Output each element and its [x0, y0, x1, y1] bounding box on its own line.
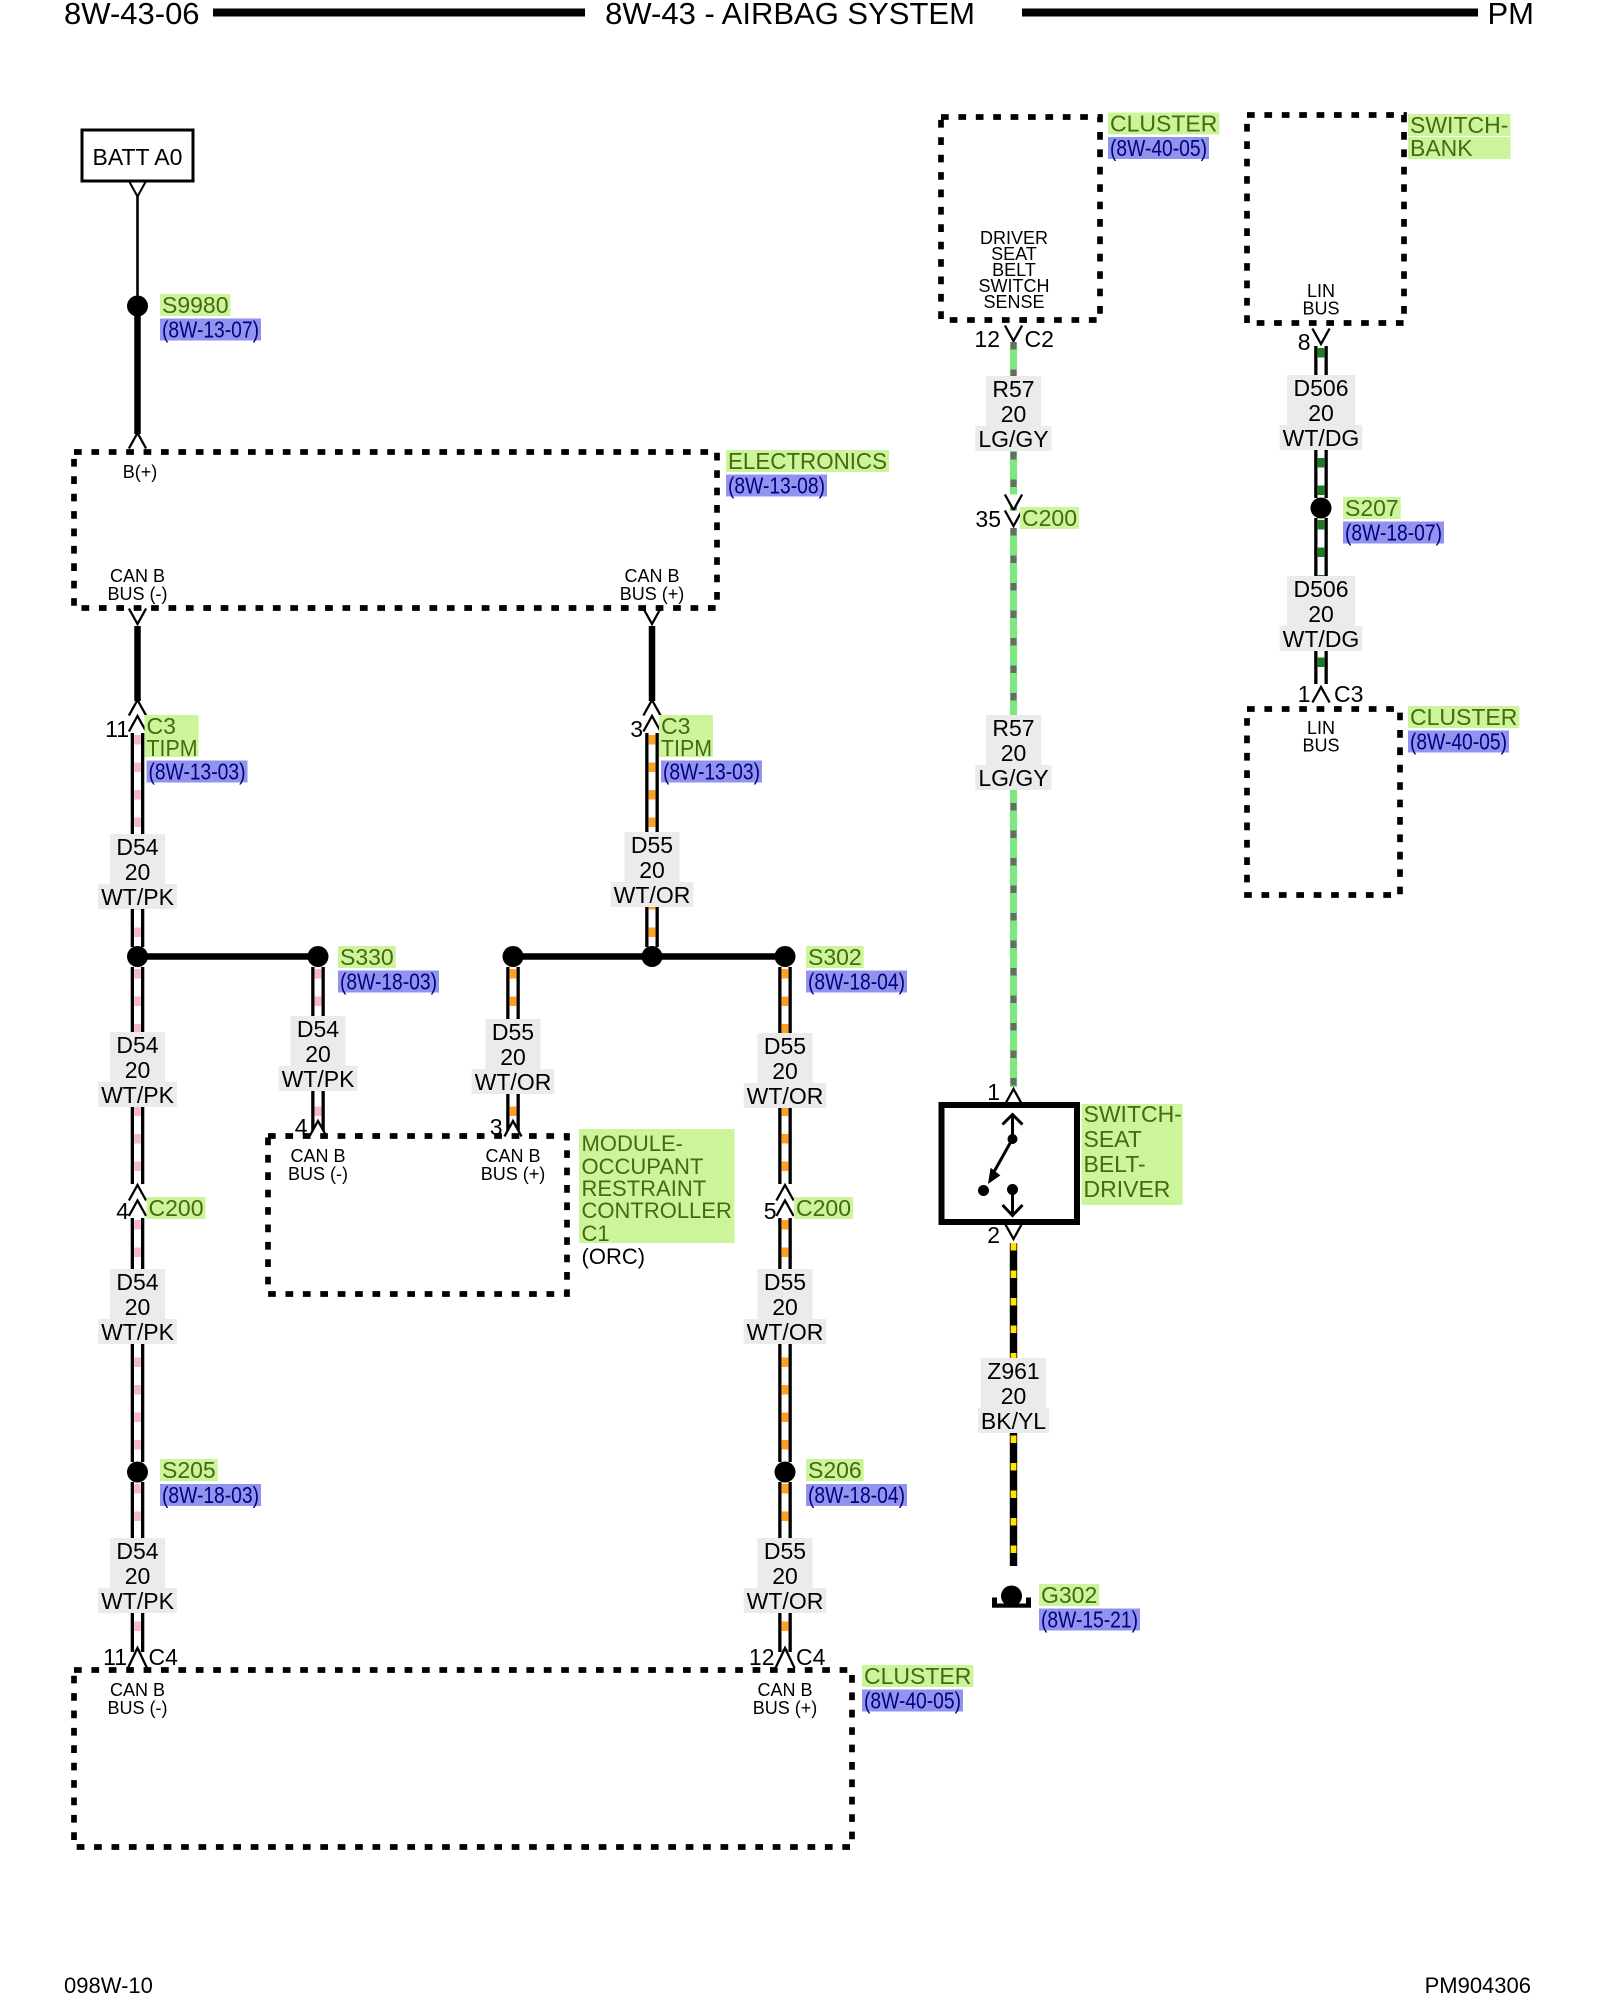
splice S330 junction bar — [138, 953, 319, 960]
svg-text:20: 20 — [125, 1563, 151, 1589]
svg-text:1: 1 — [987, 1079, 1000, 1105]
module SWITCH-BANK dashed box — [1247, 115, 1404, 323]
svg-text:(8W-18-07): (8W-18-07) — [1345, 520, 1442, 546]
svg-text:D55: D55 — [764, 1538, 806, 1564]
svg-text:BK/YL: BK/YL — [981, 1408, 1046, 1434]
wire D55 20 WT/OR segment S302 to C200 — [778, 967, 792, 1184]
svg-text:D55: D55 — [764, 1033, 806, 1059]
svg-text:S9980: S9980 — [162, 292, 229, 318]
junction dot at S330 left — [127, 946, 148, 967]
wire R57 20 LG/GY segment C2 to C200 — [1010, 342, 1017, 513]
svg-text:12: 12 — [749, 1644, 775, 1670]
pin label CAN B BUS (+) — [620, 566, 685, 604]
svg-text:(8W-40-05): (8W-40-05) — [1110, 135, 1207, 161]
junction dot at S330 right — [308, 946, 329, 967]
wire label R57 20 LG/GY — [975, 376, 1051, 452]
svg-text:20: 20 — [772, 1294, 798, 1320]
pin 8 chevron — [1312, 329, 1329, 345]
connector C4 pin 12 chevron — [776, 1648, 795, 1668]
label CLUSTER top — [1108, 113, 1219, 135]
svg-text:(8W-40-05): (8W-40-05) — [1410, 729, 1507, 755]
wire label D55 20 WT/OR — [611, 832, 694, 908]
svg-text:D55: D55 — [631, 832, 673, 858]
connector label C200 right — [794, 1197, 853, 1219]
svg-text:D506: D506 — [1294, 375, 1349, 401]
pin CAN B BUS (-) exit chevron — [129, 609, 146, 625]
ground G302 symbol — [992, 1586, 1031, 1608]
wire D55 from ELECTRONICS to connector C3 — [649, 626, 656, 701]
svg-text:20: 20 — [125, 1294, 151, 1320]
wire label D54 20 WT/PK second — [98, 1032, 177, 1108]
switch pivot dot A — [1008, 1134, 1018, 1144]
svg-text:D54: D54 — [116, 834, 158, 860]
svg-text:ELECTRONICS: ELECTRONICS — [728, 448, 887, 474]
wire D55 20 WT/OR segment S206 to C4 — [778, 1482, 792, 1652]
label S207 — [1343, 497, 1401, 519]
reference (8W-18-04) — [806, 971, 907, 993]
junction dot S302 left — [503, 946, 524, 967]
reference (8W-13-03) — [147, 761, 248, 783]
svg-text:C200: C200 — [796, 1195, 851, 1221]
wire D54 20 WT/PK segment S205 to C4 — [131, 1482, 145, 1652]
svg-text:(8W-18-04): (8W-18-04) — [808, 1482, 905, 1508]
svg-text:C1: C1 — [582, 1221, 610, 1246]
svg-text:WT/PK: WT/PK — [282, 1066, 355, 1092]
svg-text:20: 20 — [1308, 400, 1334, 426]
label CLUSTER right — [1408, 706, 1519, 728]
label MODULE-OCCUPANT RESTRAINT CONTROLLER C1 — [579, 1129, 735, 1246]
connector C3 TIPM pin 3 chevrons — [643, 700, 660, 716]
svg-text:WT/OR: WT/OR — [475, 1069, 552, 1095]
switch pin 1 chevron — [1005, 1089, 1022, 1105]
svg-text:20: 20 — [639, 857, 665, 883]
splice S9980 — [127, 296, 148, 317]
connector label C200 — [147, 1197, 206, 1219]
reference (8W-18-07) — [1343, 522, 1444, 544]
svg-text:SENSE: SENSE — [983, 292, 1044, 312]
wire label D55 20 WT/OR fourth — [744, 1538, 827, 1614]
svg-text:(8W-18-03): (8W-18-03) — [340, 969, 437, 995]
pin label CAN B BUS (-) cluster — [108, 1680, 168, 1718]
svg-text:CAN B: CAN B — [290, 1146, 345, 1166]
svg-text:S302: S302 — [808, 944, 862, 970]
reference (8W-40-05) cluster bottom — [862, 1690, 963, 1712]
pin B(+) connector chevron — [129, 433, 146, 449]
svg-text:(8W-15-21): (8W-15-21) — [1041, 1607, 1138, 1633]
svg-text:8W-43-06: 8W-43-06 — [64, 0, 200, 31]
svg-text:MODULE-: MODULE- — [582, 1131, 683, 1156]
svg-text:WT/DG: WT/DG — [1283, 425, 1360, 451]
svg-text:D55: D55 — [492, 1019, 534, 1045]
connector C200 pin 4 chevrons — [129, 1185, 146, 1201]
svg-text:TIPM: TIPM — [661, 735, 712, 761]
module CLUSTER dashed box right — [1247, 709, 1400, 895]
reference (8W-18-04) at S206 — [806, 1484, 907, 1506]
svg-text:CAN B: CAN B — [624, 566, 679, 586]
wire label D54 20 WT/PK fourth — [98, 1538, 177, 1614]
reference (8W-15-21) — [1039, 1609, 1140, 1631]
connector label C200 middle — [1020, 507, 1079, 529]
svg-text:D54: D54 — [297, 1016, 339, 1042]
connector C2 pin 12 chevron — [1005, 326, 1022, 342]
module CLUSTER dashed box bottom — [74, 1670, 852, 1847]
svg-text:(8W-13-08): (8W-13-08) — [728, 473, 825, 499]
svg-text:C2: C2 — [1025, 326, 1054, 352]
svg-text:SEAT: SEAT — [1084, 1126, 1142, 1152]
svg-text:WT/DG: WT/DG — [1283, 626, 1360, 652]
svg-text:(8W-40-05): (8W-40-05) — [864, 1688, 961, 1714]
splice S205 — [127, 1462, 148, 1483]
pin label CAN B BUS (+) cluster — [753, 1680, 818, 1718]
svg-text:BANK: BANK — [1410, 135, 1473, 161]
wire label D55 20 WT/OR third — [744, 1269, 827, 1345]
label S302 — [806, 946, 864, 968]
svg-text:CLUSTER: CLUSTER — [1410, 704, 1517, 730]
wire A0 from S9980 to ELECTRONICS B(+) — [134, 316, 141, 434]
splice S206 — [775, 1462, 796, 1483]
wire D54 20 WT/PK segment C200 to S205 — [131, 1218, 145, 1462]
svg-text:WT/OR: WT/OR — [747, 1083, 824, 1109]
svg-text:20: 20 — [305, 1041, 331, 1067]
svg-text:S330: S330 — [340, 944, 394, 970]
svg-text:CONTROLLER: CONTROLLER — [582, 1198, 732, 1223]
svg-text:(ORC): (ORC) — [582, 1244, 646, 1269]
svg-text:11: 11 — [103, 1644, 127, 1670]
svg-text:R57: R57 — [992, 376, 1034, 402]
svg-text:Z961: Z961 — [987, 1358, 1039, 1384]
wire label R57 20 LG/GY second — [975, 715, 1051, 791]
svg-text:S207: S207 — [1345, 495, 1399, 521]
connector C200 pin 35 chevrons — [1005, 495, 1022, 511]
svg-text:BUS: BUS — [1302, 299, 1339, 319]
pin label CAN B BUS (-) — [108, 566, 168, 604]
svg-text:PM: PM — [1488, 0, 1535, 31]
wire label D54 20 WT/PK third — [98, 1269, 177, 1345]
svg-text:CLUSTER: CLUSTER — [1110, 111, 1217, 137]
pin label CAN B BUS (-) ORC — [288, 1146, 348, 1184]
label S205 — [160, 1459, 218, 1481]
svg-text:(8W-13-03): (8W-13-03) — [149, 759, 246, 785]
svg-text:D54: D54 — [116, 1538, 158, 1564]
svg-text:BUS (+): BUS (+) — [620, 584, 685, 604]
svg-text:WT/PK: WT/PK — [101, 1319, 174, 1345]
wire D506 20 WT/DG segment S207 to C3 — [1314, 518, 1328, 684]
svg-text:BATT A0: BATT A0 — [93, 144, 183, 170]
svg-text:C4: C4 — [149, 1644, 179, 1670]
svg-text:CAN B: CAN B — [757, 1680, 812, 1700]
svg-text:C3: C3 — [1334, 681, 1363, 707]
wire Z961 20 BK/YL segment switch to ground — [1010, 1243, 1017, 1566]
wire D55 branch S302 to ORC pin 3 — [506, 967, 520, 1134]
svg-text:CLUSTER: CLUSTER — [864, 1663, 971, 1689]
svg-text:(8W-18-04): (8W-18-04) — [808, 969, 905, 995]
reference (8W-40-05) right — [1408, 731, 1509, 753]
label S330 — [338, 946, 396, 968]
svg-text:1: 1 — [1298, 681, 1311, 707]
splice S207 — [1311, 498, 1332, 519]
ORC pin 4 chevron — [309, 1121, 326, 1137]
svg-text:20: 20 — [772, 1058, 798, 1084]
svg-text:WT/PK: WT/PK — [101, 1588, 174, 1614]
svg-text:098W-10: 098W-10 — [64, 1973, 153, 1998]
svg-text:8W-43 - AIRBAG SYSTEM: 8W-43 - AIRBAG SYSTEM — [605, 0, 975, 31]
wire label D55 20 WT/OR right — [744, 1033, 827, 1109]
svg-text:G302: G302 — [1041, 1582, 1097, 1608]
svg-text:WT/PK: WT/PK — [101, 1082, 174, 1108]
svg-text:WT/PK: WT/PK — [101, 884, 174, 910]
label S9980 — [160, 294, 231, 316]
svg-text:BELT-: BELT- — [1084, 1151, 1146, 1177]
svg-text:WT/OR: WT/OR — [747, 1319, 824, 1345]
wire D54 branch S330 to ORC pin 4 — [311, 967, 325, 1134]
pin label LIN BUS switch-bank — [1302, 281, 1339, 319]
svg-text:C200: C200 — [1022, 505, 1077, 531]
connector C3 TIPM pin 11 chevrons — [129, 700, 146, 716]
svg-text:R57: R57 — [992, 715, 1034, 741]
svg-text:20: 20 — [125, 1057, 151, 1083]
svg-text:TIPM: TIPM — [147, 735, 198, 761]
connector label C3 TIPM — [145, 713, 199, 761]
module ORC dashed box — [268, 1136, 567, 1294]
svg-text:20: 20 — [1308, 601, 1334, 627]
switch blade arrow — [988, 1142, 1011, 1185]
svg-text:S206: S206 — [808, 1457, 862, 1483]
junction dot S302 right — [775, 946, 796, 967]
label G302 — [1039, 1584, 1099, 1606]
svg-text:11: 11 — [105, 716, 129, 742]
svg-text:20: 20 — [1001, 401, 1027, 427]
label SWITCH-SEAT BELT-DRIVER — [1082, 1101, 1183, 1205]
pin label DRIVER SEAT BELT SWITCH SENSE — [979, 228, 1050, 312]
wire D55 20 WT/OR segment C3 to S302 — [645, 733, 659, 947]
pin label CAN B BUS (+) ORC — [481, 1146, 546, 1184]
svg-text:LG/GY: LG/GY — [978, 765, 1048, 791]
reference (8W-13-07) — [160, 319, 261, 341]
svg-text:BUS (-): BUS (-) — [288, 1164, 348, 1184]
wire R57 20 LG/GY segment C200 to switch — [1010, 528, 1017, 1087]
reference (8W-13-03) middle — [661, 761, 762, 783]
svg-text:SWITCH-: SWITCH- — [1084, 1101, 1182, 1127]
svg-text:20: 20 — [500, 1044, 526, 1070]
label CLUSTER bottom — [862, 1665, 973, 1687]
reference (8W-18-03) at S205 — [160, 1484, 261, 1506]
svg-text:35: 35 — [975, 506, 1001, 532]
label SWITCH-BANK — [1408, 112, 1511, 161]
wire D506 20 WT/DG segment pin8 to S207 — [1314, 346, 1328, 498]
svg-text:(8W-13-07): (8W-13-07) — [162, 317, 259, 343]
switch SWITCH-SEAT BELT-DRIVER box — [942, 1105, 1078, 1222]
svg-text:C4: C4 — [796, 1644, 826, 1670]
svg-text:D55: D55 — [764, 1269, 806, 1295]
module ELECTRONICS dashed box — [74, 452, 717, 608]
label S206 — [806, 1459, 864, 1481]
svg-text:3: 3 — [630, 716, 643, 742]
wire D55 20 WT/OR segment C200 to S206 — [778, 1218, 792, 1462]
reference (8W-13-08) — [726, 475, 827, 497]
svg-text:20: 20 — [1001, 1383, 1027, 1409]
header section: page number, title rules — [64, 0, 1534, 31]
svg-text:20: 20 — [772, 1563, 798, 1589]
wire label D506 20 WT/DG second — [1280, 576, 1363, 652]
svg-text:(8W-18-03): (8W-18-03) — [162, 1482, 259, 1508]
svg-text:CAN B: CAN B — [110, 566, 165, 586]
connector label C3 TIPM middle — [659, 713, 713, 761]
switch pin 2 chevron — [1005, 1224, 1022, 1240]
module CLUSTER dashed box top — [941, 117, 1100, 320]
svg-text:BUS (+): BUS (+) — [481, 1164, 546, 1184]
wire label D55 20 WT/OR left branch — [472, 1019, 555, 1095]
wire D54 20 WT/PK segment S330 to C200 — [131, 967, 145, 1184]
pin label LIN BUS cluster — [1302, 718, 1339, 756]
svg-text:WT/OR: WT/OR — [747, 1588, 824, 1614]
svg-text:BUS (-): BUS (-) — [108, 584, 168, 604]
svg-text:CAN B: CAN B — [110, 1680, 165, 1700]
svg-text:5: 5 — [764, 1198, 777, 1224]
svg-text:D54: D54 — [116, 1032, 158, 1058]
splice S302 junction bar — [513, 953, 785, 960]
wire label D54 20 WT/PK branch — [279, 1016, 358, 1092]
switch contact dot B — [978, 1185, 989, 1196]
svg-text:DRIVER: DRIVER — [1084, 1176, 1171, 1202]
wire D54 from ELECTRONICS to connector C3 — [134, 626, 141, 701]
svg-text:C200: C200 — [149, 1195, 204, 1221]
svg-text:8: 8 — [1298, 329, 1311, 355]
reference (8W-18-03) — [338, 971, 439, 993]
connector C200 pin 5 chevrons — [776, 1185, 793, 1201]
connector C4 pin 11 chevron — [128, 1648, 147, 1668]
svg-text:LG/GY: LG/GY — [978, 426, 1048, 452]
ORC pin 3 chevron — [504, 1121, 521, 1137]
svg-text:S205: S205 — [162, 1457, 216, 1483]
battery feed BATT A0 — [82, 130, 193, 197]
switch down arrow contact — [1003, 1191, 1023, 1216]
switch up arrow contact — [1003, 1114, 1023, 1138]
svg-text:12: 12 — [974, 326, 1000, 352]
connector C3 pin 1 chevron — [1312, 687, 1329, 703]
svg-text:PM904306: PM904306 — [1425, 1973, 1531, 1998]
label ELECTRONICS — [726, 450, 889, 472]
svg-text:D506: D506 — [1294, 576, 1349, 602]
wire label D54 20 WT/PK — [98, 834, 177, 910]
wire A0 from BATT to splice S9980 — [136, 196, 139, 296]
svg-text:20: 20 — [125, 859, 151, 885]
svg-text:BUS (-): BUS (-) — [108, 1698, 168, 1718]
switch contact dot C — [1007, 1184, 1018, 1195]
wire label Z961 20 BK/YL — [978, 1358, 1049, 1434]
svg-text:WT/OR: WT/OR — [614, 882, 691, 908]
svg-text:B(+): B(+) — [123, 462, 158, 482]
wire label D506 20 WT/DG — [1280, 375, 1363, 451]
junction dot S302 middle — [642, 946, 663, 967]
svg-text:(8W-13-03): (8W-13-03) — [663, 759, 760, 785]
svg-text:CAN B: CAN B — [485, 1146, 540, 1166]
svg-text:D54: D54 — [116, 1269, 158, 1295]
wire D54 20 WT/PK segment C3 to S330 — [131, 733, 145, 947]
pin CAN B BUS (+) exit chevron — [643, 609, 660, 625]
svg-text:BUS (+): BUS (+) — [753, 1698, 818, 1718]
svg-text:BUS: BUS — [1302, 736, 1339, 756]
svg-text:4: 4 — [116, 1198, 129, 1224]
svg-text:2: 2 — [987, 1222, 1000, 1248]
reference (8W-40-05) top — [1108, 137, 1209, 159]
svg-text:20: 20 — [1001, 740, 1027, 766]
